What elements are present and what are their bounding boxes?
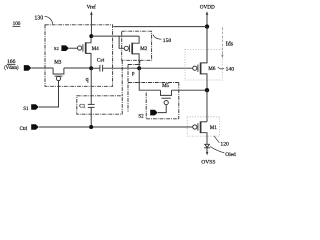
wire M2 gate to Vref rail xyxy=(119,36,124,48)
wire Vref-rail horizontal to M2 xyxy=(91,35,139,37)
label 140 xyxy=(226,66,235,72)
node p junction xyxy=(137,66,141,70)
diode Oled xyxy=(205,144,210,147)
label 166 xyxy=(7,59,16,65)
label 130 xyxy=(34,15,43,21)
transistor M2 (PMOS, gate left, diode-connected) xyxy=(124,46,128,50)
wire p down to M5 xyxy=(139,68,160,90)
transistor M5 (PMOS horizontal, gate below) xyxy=(161,90,172,95)
svg-text:130: 130 xyxy=(34,15,43,21)
label M2 xyxy=(140,47,147,52)
label 100 xyxy=(13,21,21,27)
svg-text:Vref: Vref xyxy=(87,4,96,11)
wire Vdata row to M3 xyxy=(31,67,53,69)
label M5 xyxy=(162,84,169,89)
svg-text:M3: M3 xyxy=(54,59,62,65)
junction dot M6/M5/M1 xyxy=(205,88,209,92)
wire OVDD down to M6 xyxy=(206,27,208,63)
svg-text:M6: M6 xyxy=(208,67,215,72)
svg-text:q: q xyxy=(86,77,89,83)
label 150 xyxy=(163,38,172,44)
svg-text:M1: M1 xyxy=(210,126,217,131)
input Ctrl xyxy=(20,127,28,132)
svg-text:150: 150 xyxy=(163,38,172,44)
wire OLED to OVSS with down arrowhead xyxy=(206,148,208,153)
leader for Oled xyxy=(210,147,224,153)
wire S1 to M3 gate xyxy=(39,81,59,107)
label M1 xyxy=(210,126,217,131)
input arrow 166 Vdata xyxy=(24,65,32,71)
wire M3 drain to node q xyxy=(64,67,91,69)
label (Vdata) xyxy=(4,66,19,71)
svg-text:C1: C1 xyxy=(79,104,86,110)
label Vref xyxy=(87,4,96,11)
wire OVDD vertical with up arrowhead xyxy=(206,14,208,27)
label Ids xyxy=(226,41,234,47)
input S2 (bottom) xyxy=(138,114,144,119)
box 130 (dash-dot outline of block 130) xyxy=(45,25,113,87)
svg-text:120: 120 xyxy=(220,142,229,148)
label OVDD xyxy=(200,5,215,11)
label 120 xyxy=(220,142,229,148)
input arrow Ctrl xyxy=(31,124,39,130)
svg-text:Cst: Cst xyxy=(97,58,105,64)
box 150 (dash-dot around M2) xyxy=(122,31,152,60)
svg-text:OVDD: OVDD xyxy=(200,5,215,11)
transistor M1 (PMOS, gate left) xyxy=(193,125,197,129)
svg-text:S2: S2 xyxy=(54,46,60,51)
junction dot Ctrl x C1 xyxy=(89,125,93,129)
svg-text:M2: M2 xyxy=(140,47,147,52)
label M4 xyxy=(92,47,99,52)
input arrow S2 bottom xyxy=(150,110,158,116)
box 140 (dotted around M6) xyxy=(185,49,222,80)
svg-text:140: 140 xyxy=(226,66,235,72)
svg-text:(Vdata): (Vdata) xyxy=(4,66,19,71)
wire S2 to M4 gate xyxy=(69,47,78,49)
node q junction xyxy=(89,66,93,70)
capacitor Cst xyxy=(91,67,100,69)
input arrow S1 xyxy=(31,104,39,110)
label q xyxy=(86,77,89,83)
label p xyxy=(132,72,135,77)
Ids dashed arrow xyxy=(221,28,223,56)
svg-text:Oled: Oled xyxy=(225,152,236,158)
node junction at Vref rail xyxy=(89,34,93,38)
label Oled xyxy=(225,152,236,158)
leader squiggle for 140 xyxy=(218,67,224,69)
wire q down to C1 xyxy=(90,68,92,104)
svg-text:S1: S1 xyxy=(23,107,29,112)
wire p row to M6 gate xyxy=(139,67,193,69)
transistor M3 (PMOS horizontal, gate below) xyxy=(53,68,64,74)
svg-text:100: 100 xyxy=(13,21,21,27)
svg-text:M5: M5 xyxy=(162,84,169,89)
junction dot OVDD xyxy=(205,24,209,28)
wire M5 drain to OVDD/M1 rail xyxy=(172,89,208,91)
label M6 xyxy=(208,67,215,72)
wire Cst to node p xyxy=(103,67,140,69)
svg-text:166: 166 xyxy=(7,59,16,65)
transistor M6 (PMOS, gate left) xyxy=(193,66,197,70)
wire Vref vertical with up arrowhead xyxy=(90,14,92,37)
svg-text:Ids: Ids xyxy=(226,41,234,47)
leader for 120 xyxy=(214,136,219,143)
capacitor C1 xyxy=(88,103,95,105)
svg-text:OVSS: OVSS xyxy=(201,159,215,165)
label OVSS xyxy=(201,159,215,165)
M5 block outline (dash-dot) xyxy=(128,60,140,64)
leader squiggle for 150 xyxy=(153,35,162,40)
label C1 xyxy=(79,104,86,110)
box around C1 (dash-dot) xyxy=(77,96,122,114)
leader line for 130 xyxy=(45,16,53,24)
wire S2 to M5 gate xyxy=(158,105,166,113)
dash-dot vertical linking 150 to C1 box xyxy=(121,60,123,96)
wire rail down to M1 xyxy=(206,90,208,122)
input arrow S2 top xyxy=(61,45,69,51)
wire Ctrl row to M1 gate xyxy=(39,126,193,128)
wire OVDD rail to left xyxy=(114,26,208,28)
box 120 (dotted around M1) xyxy=(187,117,219,136)
transistor M4 (PMOS, gate left) xyxy=(78,46,82,50)
input S2 (top) xyxy=(54,46,60,51)
input S1 xyxy=(23,107,29,112)
label M3 xyxy=(54,59,62,65)
svg-text:M4: M4 xyxy=(92,47,99,52)
svg-text:S2: S2 xyxy=(138,114,144,119)
svg-text:Ctrl: Ctrl xyxy=(20,127,28,132)
